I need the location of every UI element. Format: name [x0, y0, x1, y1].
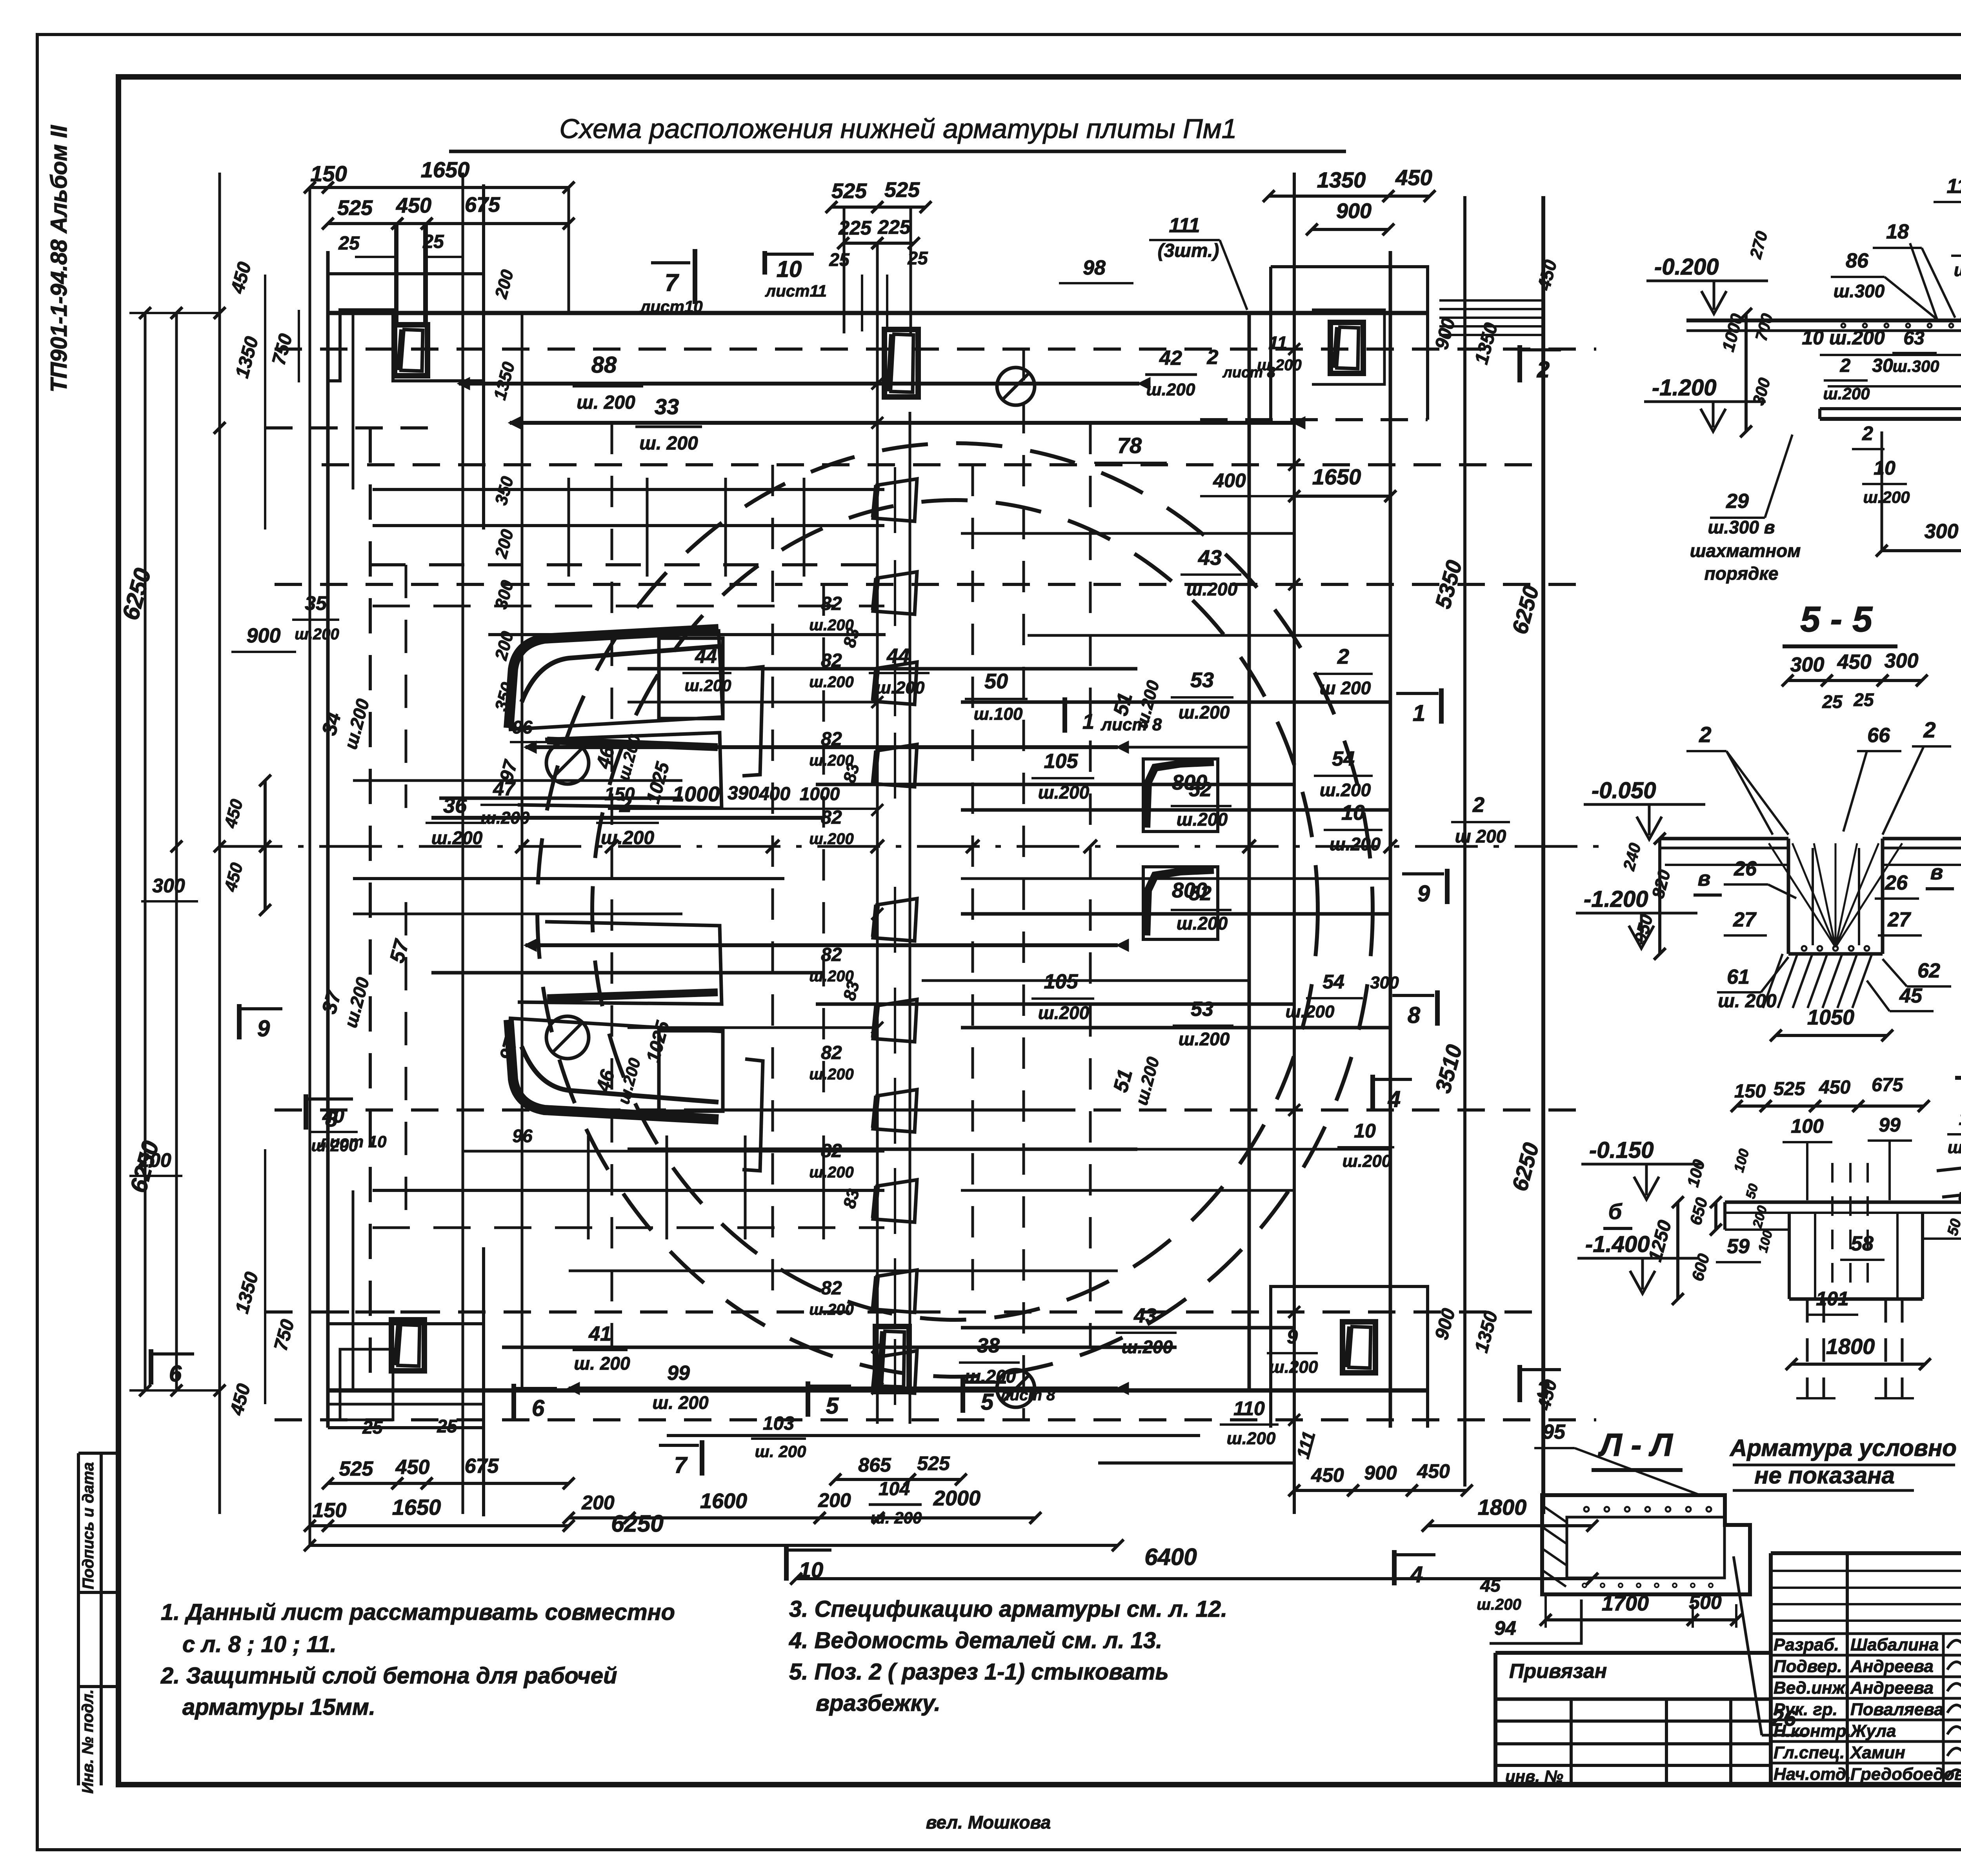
plan vertical x2100 dashed	[822, 584, 825, 1110]
svg-text:2000: 2000	[933, 1487, 980, 1510]
svg-text:ш.200: ш.200	[1257, 357, 1301, 374]
plan left inner verticals	[352, 313, 355, 489]
svg-text:Шабалина: Шабалина	[1850, 1635, 1939, 1654]
svg-text:-0.150: -0.150	[1589, 1137, 1654, 1163]
svg-text:ш.200: ш.200	[1227, 1429, 1276, 1448]
bar 50-53 line	[961, 701, 1390, 704]
plan vertical x3735	[1463, 196, 1466, 1487]
label 1 list8	[1062, 697, 1067, 733]
svg-text:2: 2	[1537, 357, 1550, 382]
svg-text:27: 27	[1733, 908, 1757, 931]
bar 33 line	[510, 421, 1294, 425]
bar 52 line	[961, 808, 1390, 812]
plan vertical x944	[369, 428, 372, 1390]
svg-text:шахматном: шахматном	[1690, 540, 1801, 561]
bar 105 line	[816, 783, 1294, 786]
svg-text:200: 200	[581, 1492, 615, 1514]
plan line y3035	[373, 1189, 884, 1192]
svg-text:8: 8	[1408, 1003, 1421, 1028]
svg-text:Рук. гр.: Рук. гр.	[1774, 1700, 1837, 1719]
svg-text:ш.200: ш.200	[1122, 1337, 1173, 1357]
svg-text:25: 25	[437, 1416, 458, 1436]
svg-text:82: 82	[821, 650, 842, 671]
svg-text:ш.100: ш.100	[974, 704, 1023, 724]
svg-text:ш.200: ш.200	[295, 626, 339, 643]
title block signature rows	[1771, 1632, 1961, 1635]
flag 1 right	[1439, 688, 1444, 724]
svg-text:300: 300	[1790, 653, 1825, 676]
svg-text:59: 59	[1727, 1235, 1750, 1258]
svg-text:Л - Л: Л - Л	[1598, 1427, 1673, 1463]
svg-text:300: 300	[1370, 973, 1399, 992]
svg-text:1700: 1700	[1602, 1592, 1649, 1615]
plan vertical x1233 block right	[482, 184, 485, 530]
svg-text:525: 525	[337, 196, 373, 220]
svg-text:25: 25	[829, 249, 850, 270]
svg-text:-0.050: -0.050	[1592, 778, 1656, 803]
svg-text:30: 30	[1872, 355, 1893, 376]
svg-text:865: 865	[858, 1454, 891, 1476]
bottom-left window	[391, 1320, 424, 1371]
svg-text:ш. 200: ш. 200	[639, 433, 698, 454]
svg-text:ш.200: ш.200	[1177, 913, 1228, 933]
hatch top right corner of plan	[1439, 299, 1541, 302]
svg-text:103: 103	[763, 1413, 794, 1434]
flag 7 list10	[693, 249, 697, 304]
L-L box inner	[1567, 1517, 1725, 1578]
plan vertical x1970 dashed	[771, 465, 774, 1312]
6-6 legs below	[1806, 1299, 1809, 1398]
svg-text:44: 44	[695, 645, 717, 667]
plan bottom dashed band	[275, 1418, 1596, 1421]
svg-text:лист11: лист11	[765, 282, 827, 300]
svg-text:Вед.инж.: Вед.инж.	[1774, 1678, 1850, 1698]
svg-text:26: 26	[1885, 872, 1908, 894]
flag 4 right-lower	[1370, 1075, 1375, 1110]
svg-text:225: 225	[877, 216, 911, 238]
svg-text:53: 53	[1191, 998, 1213, 1021]
svg-text:525: 525	[1774, 1079, 1805, 1099]
svg-text:в: в	[1698, 867, 1711, 890]
svg-text:ш.200: ш.200	[1330, 834, 1381, 854]
flag 2 right top	[1517, 345, 1522, 382]
centre strip bent bars	[873, 479, 917, 521]
L-L top dots	[1584, 1507, 1589, 1512]
svg-text:101: 101	[1816, 1288, 1848, 1310]
svg-text:54: 54	[1332, 748, 1355, 770]
svg-text:(3шт.): (3шт.)	[1158, 240, 1219, 261]
left margin strip tables	[77, 1453, 80, 1785]
svg-text:450: 450	[396, 194, 431, 217]
svg-text:450: 450	[1417, 1460, 1450, 1482]
svg-text:96: 96	[512, 717, 533, 737]
svg-text:-1.200: -1.200	[1584, 886, 1648, 912]
svg-text:95: 95	[1543, 1421, 1566, 1443]
svg-text:1800: 1800	[1478, 1495, 1527, 1519]
svg-text:4: 4	[1410, 1562, 1423, 1587]
svg-text:6250: 6250	[611, 1510, 663, 1537]
svg-text:96: 96	[512, 1126, 533, 1146]
svg-text:ш.200: ш.200	[431, 828, 483, 848]
svg-text:450: 450	[1311, 1464, 1344, 1486]
svg-text:ш 200: ш 200	[1455, 826, 1506, 846]
svg-text:6: 6	[532, 1396, 545, 1421]
svg-text:в: в	[1930, 861, 1943, 884]
svg-text:53: 53	[1190, 668, 1214, 692]
svg-text:ш.200: ш.200	[809, 1164, 853, 1181]
svg-text:525: 525	[884, 178, 920, 202]
flag 4 bottom	[1392, 1550, 1397, 1585]
slashed circle bottom-left	[546, 1016, 589, 1059]
5-5 hatch below	[1763, 954, 1783, 1008]
svg-text:порядке: порядке	[1705, 563, 1779, 584]
svg-text:1050: 1050	[1807, 1006, 1854, 1029]
bottom-centre window	[875, 1326, 909, 1392]
svg-text:Арматура условно: Арматура условно	[1729, 1435, 1957, 1461]
svg-text:900: 900	[247, 624, 281, 647]
svg-text:62: 62	[1917, 959, 1940, 982]
plan band lines over top-left	[373, 488, 884, 491]
svg-text:ш.200: ш.200	[1954, 260, 1961, 280]
svg-text:52: 52	[1189, 882, 1212, 905]
svg-text:2: 2	[1862, 422, 1873, 444]
plan vertical x762 dim	[298, 310, 300, 382]
slashed circle top-left	[546, 742, 589, 784]
plan bottom slab edge	[328, 1388, 1428, 1393]
bar 99 line	[569, 1387, 1118, 1390]
svg-text:99: 99	[667, 1362, 690, 1385]
svg-text:150: 150	[1734, 1081, 1766, 1102]
svg-text:ш.300 в: ш.300 в	[1708, 517, 1775, 537]
top-right window	[1330, 322, 1363, 373]
svg-text:82: 82	[821, 944, 842, 965]
svg-text:400: 400	[1213, 469, 1246, 491]
svg-text:ш.200: ш.200	[1038, 782, 1090, 802]
4-4 left slab rebar line	[1820, 354, 1961, 356]
corner hook bar 800 upper	[1143, 759, 1218, 832]
svg-text:18: 18	[1886, 220, 1909, 243]
svg-text:45: 45	[1899, 984, 1923, 1007]
svg-text:ш.200: ш.200	[1286, 1002, 1335, 1021]
svg-text:94: 94	[1494, 1617, 1516, 1639]
bottom-left corner block outline	[328, 1324, 484, 1428]
small wedge bottom	[518, 922, 722, 1004]
svg-text:25: 25	[338, 233, 360, 254]
svg-text:82: 82	[821, 593, 842, 614]
svg-text:с л. 8 ; 10 ; 11.: с л. 8 ; 10 ; 11.	[182, 1632, 337, 1657]
svg-text:ш.200: ш.200	[876, 678, 925, 697]
plan dashed mirror y2830	[275, 1108, 1592, 1112]
svg-text:300: 300	[152, 875, 185, 897]
svg-text:1: 1	[1082, 710, 1094, 733]
big wedge bottom	[509, 1020, 719, 1119]
plan dashed y3345	[322, 1310, 1543, 1314]
svg-text:ш.200: ш.200	[809, 830, 853, 848]
plan line y2330 mirror	[526, 943, 1118, 947]
bar 36 line	[431, 816, 824, 820]
slashed circle bottom-right	[997, 1370, 1035, 1407]
plan tick crossings	[515, 840, 529, 853]
svg-text:ш.200: ш.200	[1320, 780, 1371, 800]
plan centre axis	[220, 845, 1604, 848]
svg-text:104: 104	[879, 1479, 910, 1499]
svg-text:10: 10	[777, 257, 802, 282]
svg-text:2: 2	[1207, 346, 1219, 369]
svg-text:5: 5	[981, 1389, 994, 1415]
svg-text:2: 2	[1699, 722, 1711, 747]
svg-text:ш.200: ш.200	[601, 828, 654, 848]
svg-text:ш. 200: ш. 200	[1718, 991, 1777, 1012]
plan top slab edge	[328, 311, 1428, 315]
4-4 slab bottom	[1820, 407, 1961, 410]
bar 88 line	[459, 382, 1139, 386]
plan dashed vertical x2610	[1022, 349, 1025, 1420]
plan vertical x2780 dashed	[1089, 423, 1092, 1347]
svg-text:1. Данный лист рассматривать: 1. Данный лист рассматривать совместно	[161, 1599, 675, 1625]
svg-text:ш.200: ш.200	[1269, 1357, 1318, 1377]
4-4 misc leaders	[1910, 243, 1937, 320]
svg-text:88: 88	[591, 352, 617, 378]
svg-text:2: 2	[1923, 717, 1936, 742]
svg-text:Хамин: Хамин	[1849, 1743, 1905, 1762]
svg-text:300: 300	[1885, 650, 1919, 672]
svg-text:ш.200: ш.200	[809, 673, 853, 691]
svg-text:36: 36	[443, 794, 467, 817]
svg-text:26: 26	[1734, 857, 1757, 880]
svg-text:ш.200: ш.200	[1179, 1029, 1230, 1049]
bottom-right window	[1343, 1322, 1375, 1373]
svg-text:ш.200: ш.200	[684, 676, 731, 695]
flag 9 right	[1445, 869, 1450, 904]
svg-text:52: 52	[1189, 778, 1212, 801]
thin sliver bar upper	[742, 667, 763, 776]
svg-text:Подвер.: Подвер.	[1774, 1657, 1842, 1676]
svg-text:82: 82	[821, 807, 842, 828]
bar 105 mirror	[816, 1003, 1294, 1006]
svg-text:25: 25	[1853, 690, 1874, 710]
title block left part (privyazan)	[1495, 1651, 1771, 1655]
corner hook bar 800 lower	[1143, 867, 1218, 939]
svg-text:1: 1	[1413, 701, 1425, 726]
svg-text:6: 6	[169, 1361, 182, 1387]
svg-text:арматуры 15мм.: арматуры 15мм.	[182, 1694, 375, 1720]
6-6 inner verticals	[1831, 1163, 1834, 1294]
svg-text:Разраб.: Разраб.	[1774, 1635, 1839, 1654]
svg-text:86: 86	[1846, 249, 1869, 272]
plan short vertical stubs upper	[568, 478, 570, 577]
6-6 flag plate 2 sh200	[1937, 1162, 1961, 1197]
svg-text:ш 200: ш 200	[1320, 678, 1371, 698]
5-5 dots in block	[1802, 946, 1806, 951]
svg-text:Н.контр.: Н.контр.	[1774, 1721, 1851, 1741]
svg-text:675: 675	[1872, 1075, 1903, 1095]
5-5 fan rebars	[1769, 843, 1835, 947]
svg-text:45: 45	[1480, 1575, 1501, 1596]
bar 2 sh200 line	[526, 745, 1118, 749]
title block signature table verticals	[1846, 1553, 1849, 1785]
svg-text:инв. №: инв. №	[1505, 1767, 1563, 1785]
svg-text:2: 2	[1337, 645, 1349, 668]
svg-text:15: 15	[1959, 1107, 1961, 1129]
svg-text:ТП901-1-94.88 Альбом II: ТП901-1-94.88 Альбом II	[46, 125, 72, 393]
svg-text:38: 38	[977, 1334, 1000, 1357]
svg-text:82: 82	[821, 1278, 842, 1299]
svg-text:2: 2	[1472, 793, 1484, 817]
plan arrows on bar lines	[459, 378, 469, 389]
svg-text:1350: 1350	[1317, 167, 1366, 192]
tank wall inner dashed circle	[592, 500, 1318, 1320]
flag 5 bottom-left	[806, 1381, 810, 1417]
5-5 slab lines	[1660, 837, 1788, 841]
svg-text:525: 525	[831, 179, 867, 203]
title block upper small rows	[1771, 1570, 1961, 1572]
plan extra horizontals upper	[462, 489, 464, 606]
svg-text:29: 29	[1726, 490, 1749, 513]
svg-text:Инв. № подл.: Инв. № подл.	[79, 1689, 96, 1794]
svg-text:Андреева: Андреева	[1850, 1678, 1934, 1698]
svg-text:58: 58	[1851, 1232, 1874, 1255]
svg-text:110: 110	[1233, 1397, 1265, 1419]
svg-text:Гредобоедова: Гредобоедова	[1850, 1765, 1961, 1784]
title block left sub-table	[1495, 1698, 1771, 1701]
svg-text:Подпись и дата: Подпись и дата	[80, 1462, 97, 1589]
svg-text:вразбежку.: вразбежку.	[816, 1690, 940, 1716]
small wedge top	[518, 733, 722, 808]
4-4 slab top lines	[1686, 318, 1961, 322]
plan vertical x1008 window side	[394, 226, 397, 326]
5-5 column block	[1787, 839, 1790, 954]
plan vertical x3185	[1248, 313, 1251, 1390]
svg-text:лист 10: лист 10	[319, 1132, 387, 1151]
plan dashed line y1490	[275, 583, 1592, 586]
big wedge top	[509, 629, 719, 728]
svg-text:ш. 200: ш. 200	[577, 392, 635, 413]
svg-text:114: 114	[1947, 175, 1961, 198]
svg-text:ш.200: ш.200	[1146, 380, 1195, 399]
svg-text:82: 82	[821, 1043, 842, 1063]
svg-text:900: 900	[1336, 199, 1372, 223]
left vertical dim lines	[175, 313, 178, 846]
plan vertical x676 dim	[264, 275, 266, 530]
svg-text:100: 100	[1791, 1115, 1824, 1137]
svg-text:лист10: лист10	[639, 297, 702, 316]
svg-text:33: 33	[655, 394, 679, 419]
svg-text:25: 25	[362, 1417, 383, 1437]
svg-text:ш. 200: ш. 200	[574, 1353, 630, 1374]
svg-text:43: 43	[1133, 1305, 1157, 1327]
L-L box outer	[1542, 1495, 1750, 1594]
svg-text:66: 66	[1867, 724, 1890, 747]
svg-text:900: 900	[1364, 1462, 1397, 1484]
svg-text:47: 47	[493, 778, 516, 800]
bar 103 line	[667, 1434, 1200, 1437]
bar 49 line	[628, 1148, 1137, 1151]
bar 52 mirror	[961, 912, 1390, 916]
svg-text:1000: 1000	[673, 782, 720, 806]
svg-text:11: 11	[1268, 333, 1287, 353]
flag 8 list10 left	[304, 1094, 308, 1130]
svg-text:лист 8: лист 8	[999, 1387, 1055, 1404]
svg-text:10 ш.200: 10 ш.200	[1802, 327, 1885, 349]
svg-text:1600: 1600	[700, 1489, 747, 1513]
flag 6 bottom	[511, 1384, 516, 1419]
plan line y2240	[353, 877, 784, 880]
svg-text:44: 44	[886, 645, 910, 668]
svg-text:ш.200: ш.200	[1823, 384, 1870, 403]
bar 41 line	[502, 1346, 1177, 1349]
svg-text:450: 450	[1819, 1077, 1850, 1098]
svg-text:10: 10	[1874, 457, 1896, 479]
plan vertical x3300	[1293, 173, 1296, 1514]
flag 9 left	[237, 1004, 242, 1039]
svg-text:1000: 1000	[800, 784, 840, 804]
svg-text:9: 9	[1417, 881, 1430, 906]
thin sliver bar lower	[742, 1059, 763, 1171]
svg-text:8: 8	[325, 1106, 338, 1131]
svg-text:150: 150	[605, 784, 635, 804]
bar 36 mirror line	[431, 971, 824, 975]
svg-text:35: 35	[305, 592, 327, 614]
svg-text:300: 300	[1925, 520, 1959, 543]
svg-text:Гл.спец.: Гл.спец.	[1774, 1743, 1845, 1762]
svg-text:ш.200: ш.200	[1343, 1152, 1392, 1171]
svg-text:1650: 1650	[1312, 464, 1361, 489]
svg-text:54: 54	[1322, 971, 1344, 993]
svg-text:Привязан: Привязан	[1509, 1660, 1607, 1683]
plan dashed line y1185	[322, 463, 1543, 466]
svg-text:ш.300: ш.300	[1834, 281, 1885, 301]
flag 5 bottom-right	[960, 1377, 965, 1413]
svg-text:675: 675	[465, 193, 500, 217]
svg-text:78: 78	[1117, 433, 1142, 458]
svg-text:2. Защитный слой бетона для: 2. Защитный слой бетона для рабочей	[160, 1663, 617, 1689]
svg-text:Жула: Жула	[1850, 1721, 1896, 1741]
flag 10 list11	[762, 251, 767, 275]
plan vertical x1082 window side	[423, 226, 426, 326]
svg-text:150: 150	[313, 1499, 347, 1522]
svg-text:1650: 1650	[421, 157, 470, 182]
svg-text:25: 25	[422, 231, 444, 252]
svg-text:лист 8: лист 8	[1101, 715, 1162, 734]
svg-text:42: 42	[1159, 347, 1182, 369]
plan centre strip verticals	[876, 412, 879, 1424]
svg-text:ш. 200: ш. 200	[652, 1392, 709, 1413]
title block outline right part	[1771, 1551, 1961, 1555]
bar 44 lines	[488, 633, 886, 636]
slashed circle top-right	[997, 368, 1035, 405]
svg-text:4. Ведомость деталей см. л.: 4. Ведомость деталей см. л. 13.	[789, 1628, 1162, 1653]
plan vertical x3545	[1389, 251, 1392, 1428]
plan extra horizontals lower	[353, 913, 682, 915]
6-6 step structure	[1788, 1213, 1791, 1299]
bottom-right corner block outline	[1271, 1286, 1428, 1428]
svg-text:ш. 200: ш. 200	[755, 1442, 806, 1461]
svg-text:400: 400	[759, 784, 790, 804]
svg-text:25: 25	[1822, 691, 1843, 712]
svg-text:ш.300: ш.300	[1892, 357, 1939, 375]
flag 6 left	[149, 1349, 153, 1385]
svg-text:ш.200: ш.200	[481, 808, 530, 828]
svg-text:63: 63	[1903, 328, 1925, 349]
svg-text:5. Поз. 2 ( разрез 1-1) стыко: 5. Поз. 2 ( разрез 1-1) стыковать	[789, 1659, 1169, 1685]
svg-text:не показана: не показана	[1754, 1462, 1895, 1488]
top-centre window	[884, 329, 918, 397]
bar 48 line	[706, 1108, 1059, 1112]
svg-text:43: 43	[1198, 546, 1222, 570]
flag 10 bottom	[784, 1545, 789, 1581]
svg-text:450: 450	[1395, 165, 1432, 190]
svg-text:-1.200: -1.200	[1652, 375, 1716, 400]
